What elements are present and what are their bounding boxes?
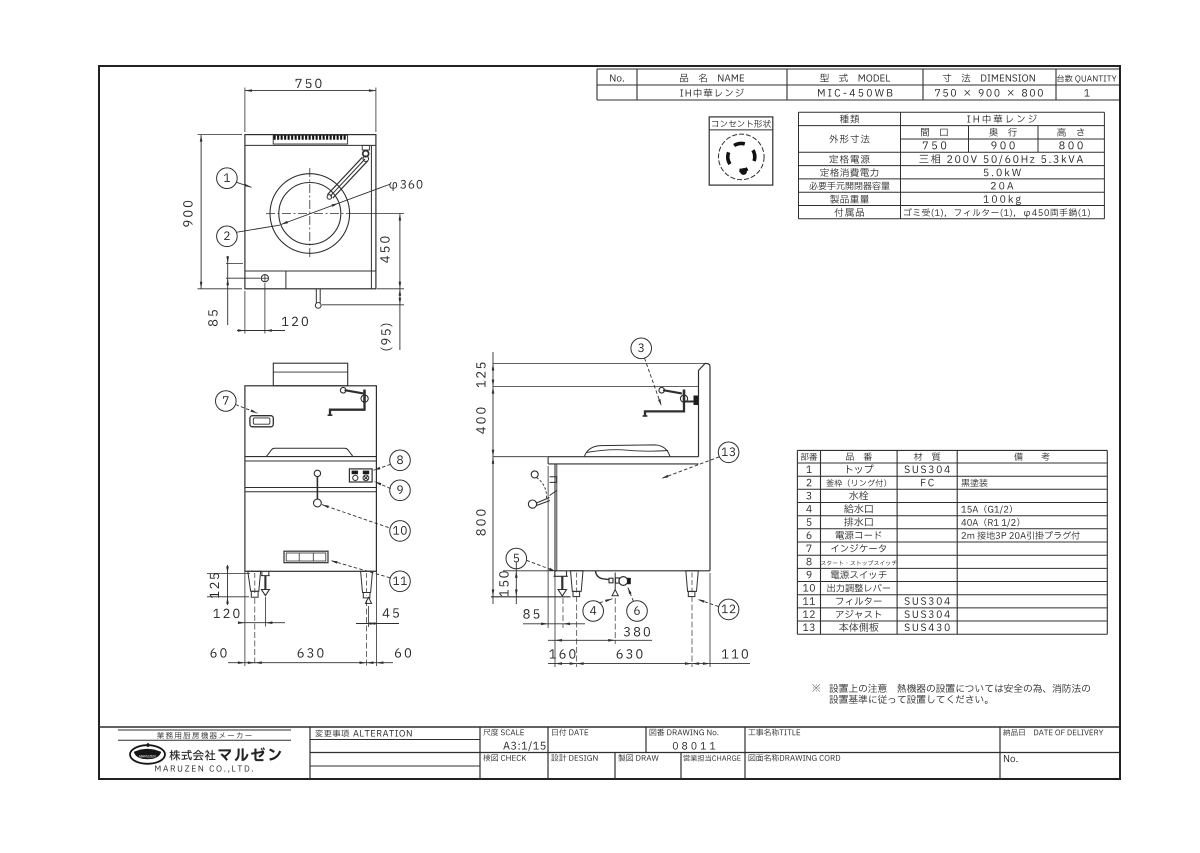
front dimension 120 drain offset — [264, 597, 266, 627]
side extension lines left — [493, 363, 705, 365]
balloon 12 adjuster leg — [718, 599, 739, 620]
maruzen logo ellipse mark — [130, 745, 165, 764]
front view chimney duct — [273, 363, 347, 386]
parts table header — [801, 453, 809, 461]
side dimension 400 backsplash — [492, 387, 495, 394]
side dimension 85 drain offset — [547, 466, 549, 628]
plan view drain screw symbol — [261, 275, 268, 282]
side bottom dimensions 160 630 110 — [576, 596, 578, 667]
parts list table grid — [796, 450, 798, 634]
dimension 900 left height — [198, 134, 243, 136]
front view wok ring bump — [267, 448, 353, 456]
specification table grid — [799, 111, 1105, 113]
dimension 120 plan bottom — [244, 291, 246, 334]
outlet receptacle circle with prong slots — [719, 134, 765, 180]
front view indicator lamp item 7 — [250, 416, 273, 427]
installation caution note — [812, 684, 820, 692]
front view body outline — [245, 386, 377, 572]
drawing sheet border frame — [99, 66, 1120, 779]
plan view top trim line — [245, 144, 376, 146]
balloon 5 drain — [506, 548, 527, 569]
company name text — [169, 750, 180, 761]
side view water inlet triangle — [612, 590, 618, 596]
balloon 3 faucet — [631, 338, 652, 359]
balloon 4 water inlet — [583, 601, 604, 622]
side dimension 150 leg — [503, 570, 553, 572]
balloon 11 filter — [390, 571, 411, 592]
title block grid — [99, 726, 1119, 728]
side view power cord and plug item 6 — [596, 571, 610, 580]
title block labels row 1 — [315, 730, 322, 737]
front view right leg — [361, 571, 373, 592]
plan view body outline — [245, 135, 376, 289]
front view filter item 11 — [284, 551, 328, 563]
front view left leg — [248, 571, 261, 591]
side view faucet — [664, 390, 681, 393]
side view wok pan profile — [584, 445, 670, 457]
phi 360 dimension leader — [389, 182, 397, 191]
front view output lever item 10 — [314, 470, 320, 476]
side view filter latch knobs — [531, 471, 538, 478]
balloon 9 power switch — [390, 480, 411, 501]
balloon 2 wok ring — [217, 226, 238, 247]
plan view inner right panel line — [370, 145, 372, 288]
front view faucet and handle — [346, 390, 363, 393]
title block labels row 2 — [483, 754, 490, 761]
balloon 7 indicator — [216, 391, 237, 412]
front dimension 125 leg height — [207, 573, 250, 575]
balloon 10 output lever — [390, 521, 411, 542]
top table values: product name, model, dimension, quantity — [680, 90, 683, 97]
front view switch panel items 8 9 — [349, 469, 372, 482]
side view drain outlet with down arrow item 5 — [554, 571, 568, 577]
side view body outline — [548, 456, 698, 458]
side view backsplash panel — [699, 364, 711, 571]
plan view faucet swing arm — [362, 145, 369, 150]
balloon 1 top — [217, 168, 238, 189]
plan view centerlines — [309, 168, 311, 259]
dimension (95) cord offset — [322, 304, 404, 306]
dimension 750 top width — [244, 88, 246, 133]
dimension 85 plan lower-left — [226, 262, 243, 264]
side view left leg — [571, 571, 584, 592]
front view drain pipe with down arrow item for 120 — [261, 571, 270, 575]
front view lower panel lines — [245, 487, 377, 489]
plan view power cord stub — [315, 289, 317, 303]
balloon 6 power cord — [627, 601, 648, 622]
side view extension line faucet level — [493, 386, 699, 388]
front view water inlet triangle — [365, 597, 371, 603]
wok ring outer circle — [270, 174, 350, 254]
top table header labels — [610, 75, 615, 82]
side dimension 380 inlet offset — [554, 573, 556, 667]
svg-text:MARUZEN: MARUZEN — [139, 755, 156, 759]
front view counter top lines — [245, 456, 377, 458]
dimension 450 circle center to front — [354, 213, 404, 215]
spec table values — [967, 116, 970, 123]
side dimension 125 top — [492, 352, 494, 604]
side view right leg — [686, 571, 699, 592]
parts table rows 1-13 — [806, 466, 811, 473]
outlet shape box (konsento keijou) — [709, 117, 773, 185]
front dimension 45 inlet offset — [368, 606, 370, 627]
front bottom dimensions 60 630 60 — [244, 571, 246, 666]
wok opening inner circle phi360 — [279, 183, 341, 245]
maruzen company logo block — [118, 729, 291, 731]
spec table row labels — [840, 115, 849, 124]
top header table grid — [597, 68, 1119, 70]
plan view bottom trim band — [245, 270, 376, 272]
side dimension 800 body height — [492, 457, 495, 464]
plan view vent grill — [273, 135, 347, 144]
balloon 13 side panel — [718, 442, 739, 463]
balloon 8 start-stop switch — [390, 450, 411, 471]
